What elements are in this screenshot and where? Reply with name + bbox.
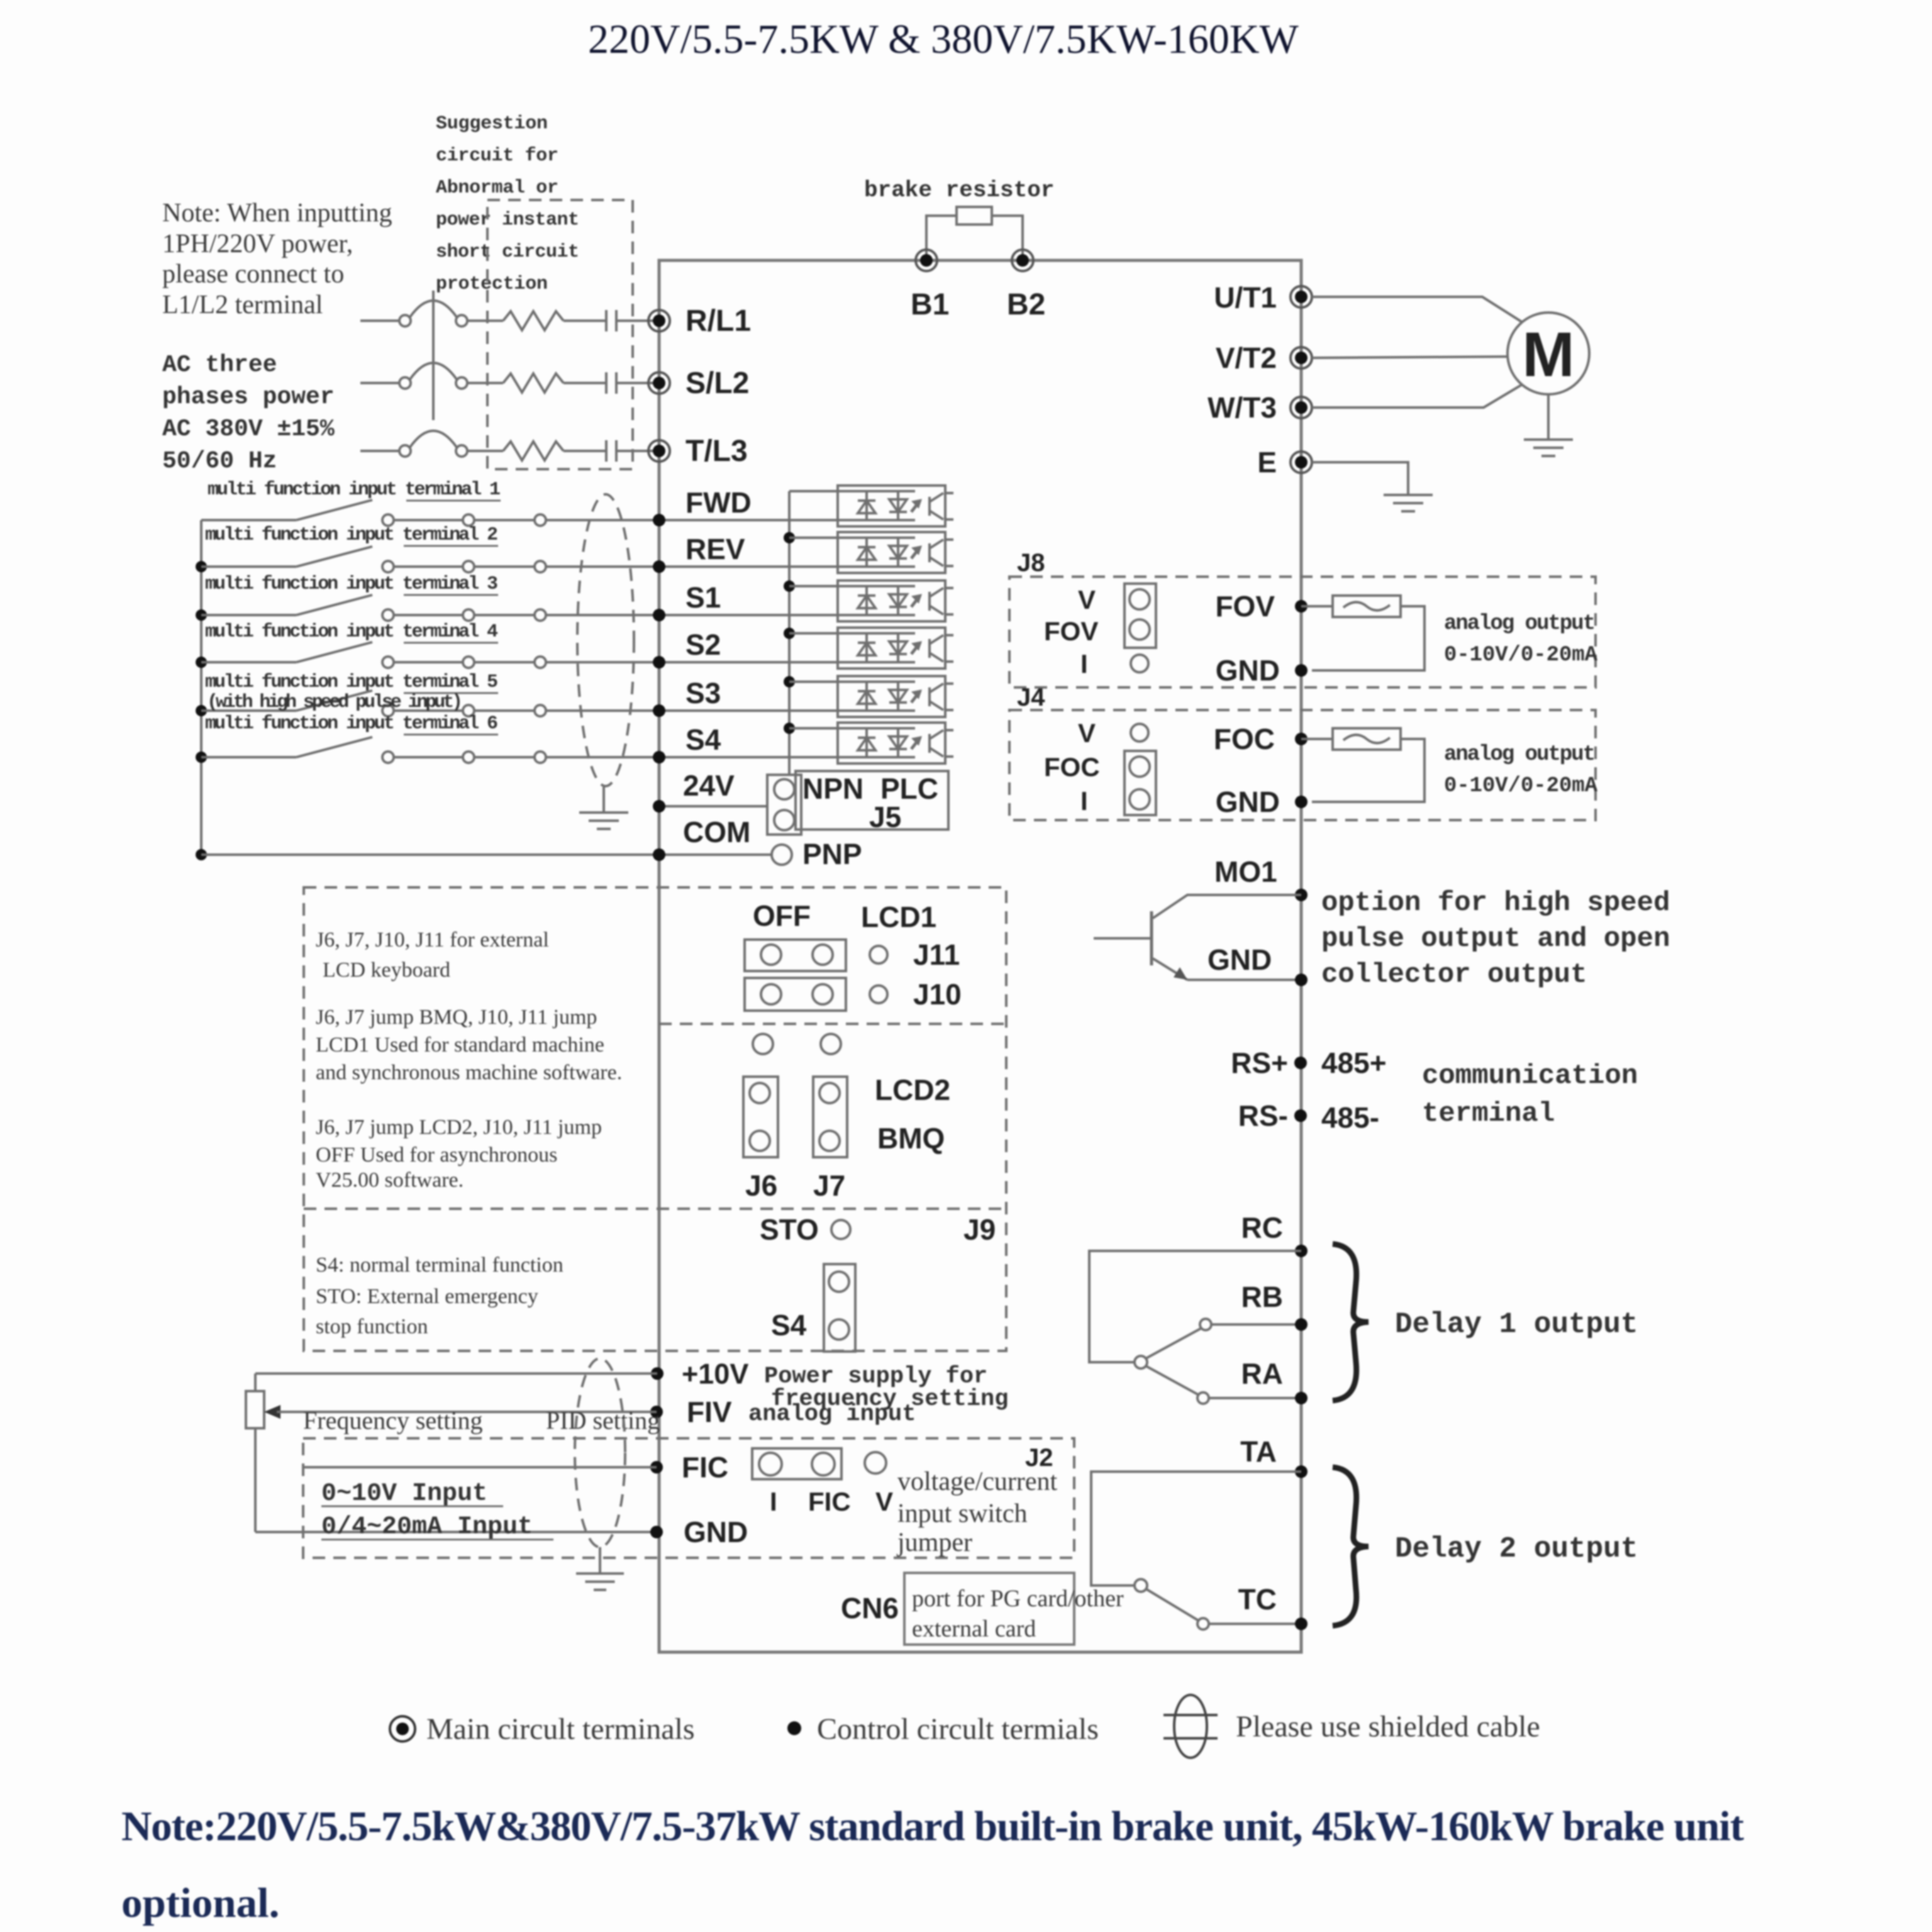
underline 0/4-20mA	[321, 1539, 553, 1541]
wire FOC to filter	[1301, 738, 1333, 740]
terminal PNP row (control)	[653, 848, 665, 861]
svg-text:short circuit: short circuit	[436, 241, 579, 263]
text STO description	[316, 1285, 538, 1338]
svg-text:RS+: RS+	[1231, 1046, 1288, 1079]
jumper block J2	[752, 1448, 841, 1479]
terminal 24V (control)	[653, 800, 665, 813]
jumper pin J7 a	[819, 1083, 840, 1103]
svg-text:FOC: FOC	[1044, 752, 1100, 782]
transistor Q1 bar	[1150, 911, 1153, 965]
svg-text:FIV: FIV	[687, 1396, 732, 1428]
terminal REV (control)	[653, 560, 665, 573]
wire FOC filter loop	[1312, 739, 1424, 802]
terminal RB (control)	[1295, 1318, 1307, 1331]
filter tilde FOV	[1343, 602, 1390, 610]
wire RL1 to resistor	[467, 319, 503, 322]
svg-text:B2: B2	[1007, 288, 1045, 321]
wire TC	[1209, 1623, 1301, 1625]
svg-text:option for high speed: option for high speed	[1321, 887, 1670, 919]
note text: AC supply	[162, 352, 335, 475]
svg-text:1PH/220V power,: 1PH/220V power,	[162, 230, 353, 258]
terminal S4 (control)	[653, 751, 665, 763]
svg-text:V: V	[1078, 585, 1096, 614]
wire REV a-b	[394, 565, 463, 568]
terminal RS+ (control)	[1294, 1057, 1307, 1069]
dashed box analog input / J2	[303, 1438, 1074, 1558]
svg-text:0/4~20mA Input: 0/4~20mA Input	[321, 1513, 533, 1541]
junction dot common/S2 opto	[784, 628, 795, 639]
wire opto S4 top input	[789, 727, 838, 730]
jumper pin J5 NPN	[774, 779, 794, 799]
wire S3 b-c	[474, 709, 535, 712]
junction dot common/S4 opto	[784, 723, 795, 734]
svg-text:W/T3: W/T3	[1207, 391, 1277, 424]
capacitor SL2 snubber	[606, 372, 616, 394]
shield drain stem (analog)	[599, 1547, 601, 1574]
svg-text:FOC: FOC	[1214, 723, 1275, 755]
svg-text:external card: external card	[912, 1616, 1036, 1642]
jumper block J11	[745, 940, 846, 971]
wire FIC	[304, 1466, 657, 1468]
pin J7 top	[821, 1034, 841, 1054]
switch blade S3	[296, 691, 372, 711]
terminal S2 (control)	[653, 656, 665, 669]
optocoupler U4 (S2)	[838, 628, 953, 669]
terminal W/T3 (main)	[1291, 397, 1312, 418]
jumper pin J10 b	[813, 984, 833, 1004]
underline terminal S2 label	[404, 642, 498, 644]
svg-text:J6, J7 jump LCD2, J10, J11 jum: J6, J7 jump LCD2, J10, J11 jump	[316, 1116, 602, 1139]
relay K1 blade to RA	[1146, 1366, 1199, 1395]
wire FWD into drive	[546, 519, 838, 521]
svg-text:485+: 485+	[1321, 1046, 1387, 1079]
jumper pin PNP	[772, 845, 792, 865]
transistor Q1 emitter arrow	[1174, 967, 1187, 980]
svg-text:I: I	[1080, 786, 1088, 816]
pin J11 c	[870, 946, 887, 963]
svg-text:0-10V/0-20mA: 0-10V/0-20mA	[1444, 643, 1598, 667]
switch circle REV a	[382, 561, 394, 572]
wire SL2 capacitor to terminal	[616, 382, 654, 384]
switch circle S3 a	[382, 705, 394, 716]
junction dot trunk/S3	[196, 705, 207, 716]
svg-text:J8: J8	[1017, 549, 1045, 577]
switch circle FWD a	[382, 514, 394, 526]
wire TL3 source lead	[360, 450, 400, 452]
svg-text:analog output: analog output	[1444, 743, 1596, 767]
svg-text:TA: TA	[1240, 1435, 1277, 1468]
svg-text:B1: B1	[911, 288, 949, 321]
wire S1 a-b	[394, 614, 463, 616]
legend main circuit symbol	[390, 1716, 415, 1741]
transistor Q1 emitter	[1153, 958, 1187, 980]
optocoupler U1 (FWD)	[838, 486, 953, 526]
svg-text:communication: communication	[1422, 1060, 1638, 1092]
svg-text:multi function input terminal: multi function input terminal 4	[205, 621, 498, 643]
relay K1 contact RB	[1200, 1319, 1211, 1330]
wire MO1 collector	[1153, 895, 1301, 918]
wire S3 row from trunk	[201, 709, 296, 712]
underline 0-10V	[321, 1506, 503, 1507]
svg-text:GND: GND	[684, 1516, 748, 1548]
svg-text:Main circult terminals: Main circult terminals	[426, 1713, 695, 1746]
svg-text:220V/5.5-7.5KW & 380V/7.5KW-16: 220V/5.5-7.5KW & 380V/7.5KW-160KW	[588, 16, 1299, 62]
svg-text:terminal: terminal	[1422, 1098, 1555, 1130]
svg-text:multi function input terminal: multi function input terminal 2	[205, 525, 498, 546]
resistor brake	[957, 207, 992, 225]
svg-text:0~10V Input: 0~10V Input	[321, 1480, 487, 1508]
svg-text:analog input: analog input	[748, 1401, 916, 1428]
switch circle REV b	[463, 561, 474, 572]
filter box FOV	[1333, 596, 1401, 617]
terminal +10V (control)	[651, 1367, 663, 1380]
text: suggestion circuit label	[436, 113, 579, 295]
junction dot common/S3 opto	[784, 676, 795, 687]
potentiometer RP1 bottom lead	[254, 1428, 257, 1532]
underline terminal FWD label	[406, 500, 501, 502]
wire U/T1 to motor	[1312, 297, 1522, 322]
svg-text:RS-: RS-	[1238, 1099, 1288, 1132]
svg-text:J9: J9	[963, 1213, 996, 1246]
terminal S1 (control)	[653, 609, 665, 621]
pin J2 V	[865, 1452, 886, 1474]
terminal TC (control)	[1295, 1618, 1307, 1630]
svg-text:please connect to: please connect to	[162, 260, 344, 289]
relay K1 contact RA	[1197, 1392, 1209, 1404]
wire SL2 to resistor	[467, 382, 503, 384]
svg-text:port for PG card/other: port for PG card/other	[912, 1585, 1124, 1612]
shielded cable ellipse (digital inputs)	[577, 494, 634, 786]
junction dot trunk/S4	[196, 752, 207, 763]
svg-text:LCD1 Used for standard machine: LCD1 Used for standard machine	[316, 1033, 604, 1057]
svg-text:jumper: jumper	[896, 1528, 972, 1557]
junction dot trunk/REV	[196, 561, 207, 572]
svg-text:E: E	[1257, 446, 1277, 479]
resistor TL3 snubber	[503, 441, 563, 460]
wire REV row from trunk	[201, 565, 296, 568]
svg-text:GND: GND	[1207, 943, 1272, 976]
jumper block J7	[813, 1077, 847, 1157]
svg-text:multi function input terminal: multi function input terminal 5	[205, 672, 498, 693]
relay K1 blade to RB	[1146, 1328, 1201, 1358]
wire opto REV top input	[789, 536, 838, 539]
trunk wire: digital input common bus	[200, 520, 203, 855]
potentiometer RP1 wiper arrow	[264, 1405, 280, 1419]
wire RC to relay1 pivot	[1089, 1251, 1301, 1362]
junction dot trunk/PNP row	[196, 849, 207, 860]
switch gang linkage line	[432, 291, 435, 420]
svg-text:J10: J10	[913, 978, 962, 1011]
underline terminal REV label	[404, 545, 498, 547]
svg-text:GND: GND	[1216, 654, 1280, 687]
svg-text:FOV: FOV	[1215, 590, 1275, 623]
svg-text:FIC: FIC	[808, 1487, 851, 1516]
dashed box J8	[1009, 577, 1596, 687]
wire PNP row	[201, 853, 772, 856]
jumper block J10	[745, 978, 846, 1011]
wire S4 into drive	[546, 756, 838, 758]
wire motor to ground	[1547, 394, 1550, 440]
svg-text:AC 380V ±15%: AC 380V ±15%	[162, 416, 335, 443]
jumper pin J6 b	[750, 1131, 770, 1151]
terminal T/L3 (main circuit)	[648, 440, 670, 462]
text jump BMQ description	[316, 1006, 622, 1084]
svg-text:CN6: CN6	[841, 1592, 899, 1624]
potentiometer RP1 top lead	[254, 1374, 257, 1391]
jumper pin J11 b	[813, 945, 833, 965]
terminal GND J4 (control)	[1295, 796, 1307, 808]
svg-text:Note: When inputting: Note: When inputting	[162, 199, 392, 228]
wire RA	[1209, 1397, 1301, 1399]
terminal S3 (control)	[653, 704, 665, 717]
shield drain stem	[602, 785, 605, 813]
svg-text:U/T1: U/T1	[1214, 281, 1277, 314]
switch circle REV c	[535, 561, 546, 572]
resistor SL2 snubber	[503, 374, 563, 392]
potentiometer RP1 body	[246, 1391, 264, 1428]
svg-text:optional.: optional.	[121, 1880, 279, 1926]
svg-text:S/L2: S/L2	[686, 367, 749, 400]
switch circle S3 c	[535, 705, 546, 716]
svg-text:J5: J5	[869, 801, 901, 833]
brace delay 1	[1333, 1244, 1368, 1401]
wire E to ground	[1312, 462, 1408, 495]
svg-text:(with high speed pulse input): (with high speed pulse input)	[207, 692, 463, 713]
jumper block J6	[743, 1077, 778, 1157]
svg-text:RB: RB	[1241, 1280, 1283, 1313]
svg-text:485-: 485-	[1321, 1101, 1379, 1134]
terminal S/L2 (main circuit)	[648, 372, 670, 394]
svg-text:Frequency setting: Frequency setting	[303, 1406, 483, 1435]
svg-text:J7: J7	[813, 1169, 845, 1202]
svg-text:J6, J7 jump BMQ, J10, J11 jump: J6, J7 jump BMQ, J10, J11 jump	[316, 1006, 597, 1029]
svg-text:REV: REV	[686, 533, 745, 565]
svg-text:Please use shielded cable: Please use shielded cable	[1236, 1710, 1540, 1743]
ground (analog shield)	[576, 1574, 624, 1590]
svg-text:OFF: OFF	[753, 899, 811, 932]
filter tilde FOC	[1343, 735, 1390, 743]
wire opto S2 top input	[789, 632, 838, 635]
optocoupler U3 (S1)	[838, 580, 953, 621]
terminal E (main)	[1291, 452, 1312, 473]
wire FWD b-c	[474, 519, 535, 521]
dashed separator after J10	[659, 1023, 1006, 1025]
wire W/T3 to motor	[1312, 384, 1523, 408]
dashed separator before STO	[304, 1207, 1006, 1210]
dashed box: surge protection circuit	[487, 200, 633, 469]
capacitor TL3 snubber	[606, 440, 616, 462]
wire S4 b-c	[474, 756, 535, 758]
wire S2 row from trunk	[201, 661, 296, 663]
junction dot common/S1 opto	[784, 580, 795, 592]
wire S1 b-c	[474, 614, 535, 616]
wire FIV wiper	[279, 1411, 657, 1413]
wire GND return (pot)	[255, 1531, 657, 1533]
switch circle S2 b	[463, 657, 474, 668]
svg-text:RA: RA	[1241, 1357, 1283, 1390]
svg-text:and synchronous machine softwa: and synchronous machine software.	[316, 1061, 622, 1084]
switch circle S1 b	[463, 609, 474, 621]
wire opto S1 top input	[789, 585, 838, 587]
filter box FOC	[1333, 728, 1401, 750]
underline terminal S3 label	[404, 692, 498, 694]
wire B1 riser	[926, 216, 957, 260]
wire S2 a-b	[394, 661, 463, 663]
terminal FIV (control)	[650, 1406, 663, 1418]
switch circle S1 a	[382, 609, 394, 621]
wire S4 row from trunk	[201, 756, 296, 758]
wire RL1 resistor to capacitor	[563, 319, 606, 322]
svg-text:brake resistor: brake resistor	[864, 177, 1054, 203]
jumper pin J2 FIC	[812, 1453, 835, 1475]
jumper pin J4 FOC	[1130, 757, 1150, 777]
wire opto FWD top input	[789, 490, 838, 492]
switch circle S3 b	[463, 705, 474, 716]
underline terminal S1 label	[404, 594, 498, 596]
svg-text:Delay 2 output: Delay 2 output	[1395, 1533, 1638, 1565]
svg-text:analog output: analog output	[1444, 612, 1596, 636]
wire TL3 capacitor to terminal	[616, 450, 654, 452]
wire TL3 resistor to capacitor	[563, 450, 606, 452]
jumper block J8	[1124, 584, 1156, 648]
svg-text:MO1: MO1	[1214, 855, 1277, 888]
terminal MO1 (control)	[1295, 889, 1307, 901]
terminal FIC (control)	[650, 1461, 663, 1474]
legend shielded cable symbol	[1163, 1695, 1218, 1758]
wire MO1 emitter to GND	[1187, 979, 1301, 981]
switch circle S1 c	[535, 609, 546, 621]
svg-text:24V: 24V	[683, 769, 735, 802]
pin J4 V	[1131, 724, 1148, 741]
svg-text:S4: normal terminal function: S4: normal terminal function	[316, 1253, 563, 1277]
svg-text:S4: S4	[771, 1309, 807, 1341]
dashed box jumper descriptions	[304, 887, 1006, 1351]
svg-text:GND: GND	[1216, 786, 1280, 818]
transistor Q1 base wire	[1094, 937, 1152, 940]
svg-text:S3: S3	[686, 677, 721, 709]
switch contact circle RL1 b	[456, 315, 467, 326]
svg-text:multi function input terminal: multi function input terminal 1	[208, 479, 501, 501]
jumper pin J2 I	[759, 1453, 782, 1475]
wire wiper lead	[277, 1411, 296, 1413]
switch contact circle SL2 a	[399, 377, 411, 389]
svg-text:0-10V/0-20mA: 0-10V/0-20mA	[1444, 774, 1598, 798]
svg-text:50/60 Hz: 50/60 Hz	[162, 448, 277, 475]
switch blade S2	[296, 642, 372, 662]
wire FOV filter loop	[1312, 606, 1424, 670]
wire FOV to filter	[1301, 605, 1333, 608]
terminal RC (control)	[1295, 1245, 1307, 1257]
svg-text:S1: S1	[686, 581, 721, 614]
svg-text:S4: S4	[686, 723, 721, 756]
jumper pin J6 a	[750, 1083, 770, 1103]
svg-text:R/L1: R/L1	[686, 304, 751, 338]
switch blade arc RL1	[410, 301, 457, 317]
svg-text:L1/L2 terminal: L1/L2 terminal	[162, 291, 323, 319]
switch contact circle RL1 a	[399, 315, 411, 326]
switch circle S4 a	[382, 752, 394, 763]
svg-text:AC three: AC three	[162, 352, 277, 379]
switch contact circle TL3 b	[456, 445, 467, 457]
junction dot common/REV opto	[784, 532, 795, 543]
wire S1 into drive	[546, 614, 838, 616]
ground (digital input shield)	[579, 813, 628, 829]
svg-text:I: I	[770, 1487, 777, 1516]
terminal GND J8 (control)	[1295, 664, 1307, 677]
terminal R/L1 (main circuit)	[648, 310, 670, 331]
switch blade arc TL3	[410, 431, 457, 447]
svg-text:multi function input terminal: multi function input terminal 3	[205, 574, 498, 595]
terminal V/T2 (main)	[1291, 347, 1312, 369]
svg-text:M: M	[1522, 319, 1574, 390]
jumper pin J4 I	[1130, 789, 1150, 809]
jumper pin S4 b	[829, 1319, 849, 1340]
terminal U/T1 (main)	[1291, 286, 1312, 308]
switch contact circle TL3 a	[399, 445, 411, 457]
junction dot trunk/S2	[196, 657, 207, 668]
VFD main enclosure box	[659, 260, 1301, 1652]
wire TL3 to resistor	[467, 450, 503, 452]
brace delay 2	[1333, 1467, 1368, 1626]
wire TA to relay2 pivot	[1091, 1472, 1301, 1585]
switch blade arc SL2	[410, 363, 457, 379]
jumper pin J7 b	[819, 1131, 840, 1151]
jumper block J4	[1124, 751, 1156, 815]
terminal GND analog (control)	[650, 1526, 663, 1538]
terminal TA (control)	[1295, 1465, 1307, 1478]
wire RL1 capacitor to terminal	[616, 319, 654, 322]
svg-text:NPN: NPN	[802, 772, 863, 805]
switch circle S4 b	[463, 752, 474, 763]
svg-text:LCD1: LCD1	[861, 901, 936, 933]
wire B2 riser	[992, 216, 1023, 260]
switch circle FWD b	[463, 514, 474, 526]
svg-text:V: V	[875, 1487, 893, 1516]
jumper pin J8 FOV	[1130, 619, 1150, 640]
switch circle FWD c	[535, 514, 546, 526]
svg-text:FIC: FIC	[682, 1451, 728, 1484]
wire S2 into drive	[546, 661, 838, 663]
svg-text:PID setting: PID setting	[546, 1406, 660, 1435]
wire S3 into drive	[546, 709, 838, 712]
wire S1 row from trunk	[201, 614, 296, 616]
svg-text:RC: RC	[1241, 1211, 1283, 1244]
terminal FOV (control)	[1295, 600, 1307, 613]
text jump LCD2 description	[316, 1116, 602, 1192]
wire FWD a-b	[394, 519, 463, 521]
resistor RL1 snubber	[503, 311, 563, 330]
optocoupler U2 (REV)	[838, 532, 953, 573]
svg-text:J6: J6	[745, 1169, 777, 1202]
svg-text:circuit for: circuit for	[436, 145, 558, 167]
ground (motor)	[1524, 440, 1573, 456]
pin J10 c	[870, 985, 887, 1003]
motor M1 circle	[1507, 313, 1589, 394]
optocoupler common feed line	[788, 491, 791, 775]
svg-text:COM: COM	[683, 816, 750, 848]
optocoupler U6 (S4)	[838, 723, 953, 763]
jumper pin J5 PLC	[774, 810, 794, 830]
wire RB	[1211, 1323, 1301, 1326]
svg-text:V: V	[1078, 718, 1096, 748]
svg-text:Abnormal or: Abnormal or	[436, 177, 558, 199]
svg-text:FOV: FOV	[1044, 616, 1098, 646]
terminal RA (control)	[1295, 1392, 1307, 1404]
pin STO (J9)	[831, 1220, 850, 1239]
terminal RS- (control)	[1294, 1109, 1307, 1122]
svg-text:I: I	[1080, 649, 1088, 679]
relay K1 pivot contact	[1135, 1356, 1147, 1368]
